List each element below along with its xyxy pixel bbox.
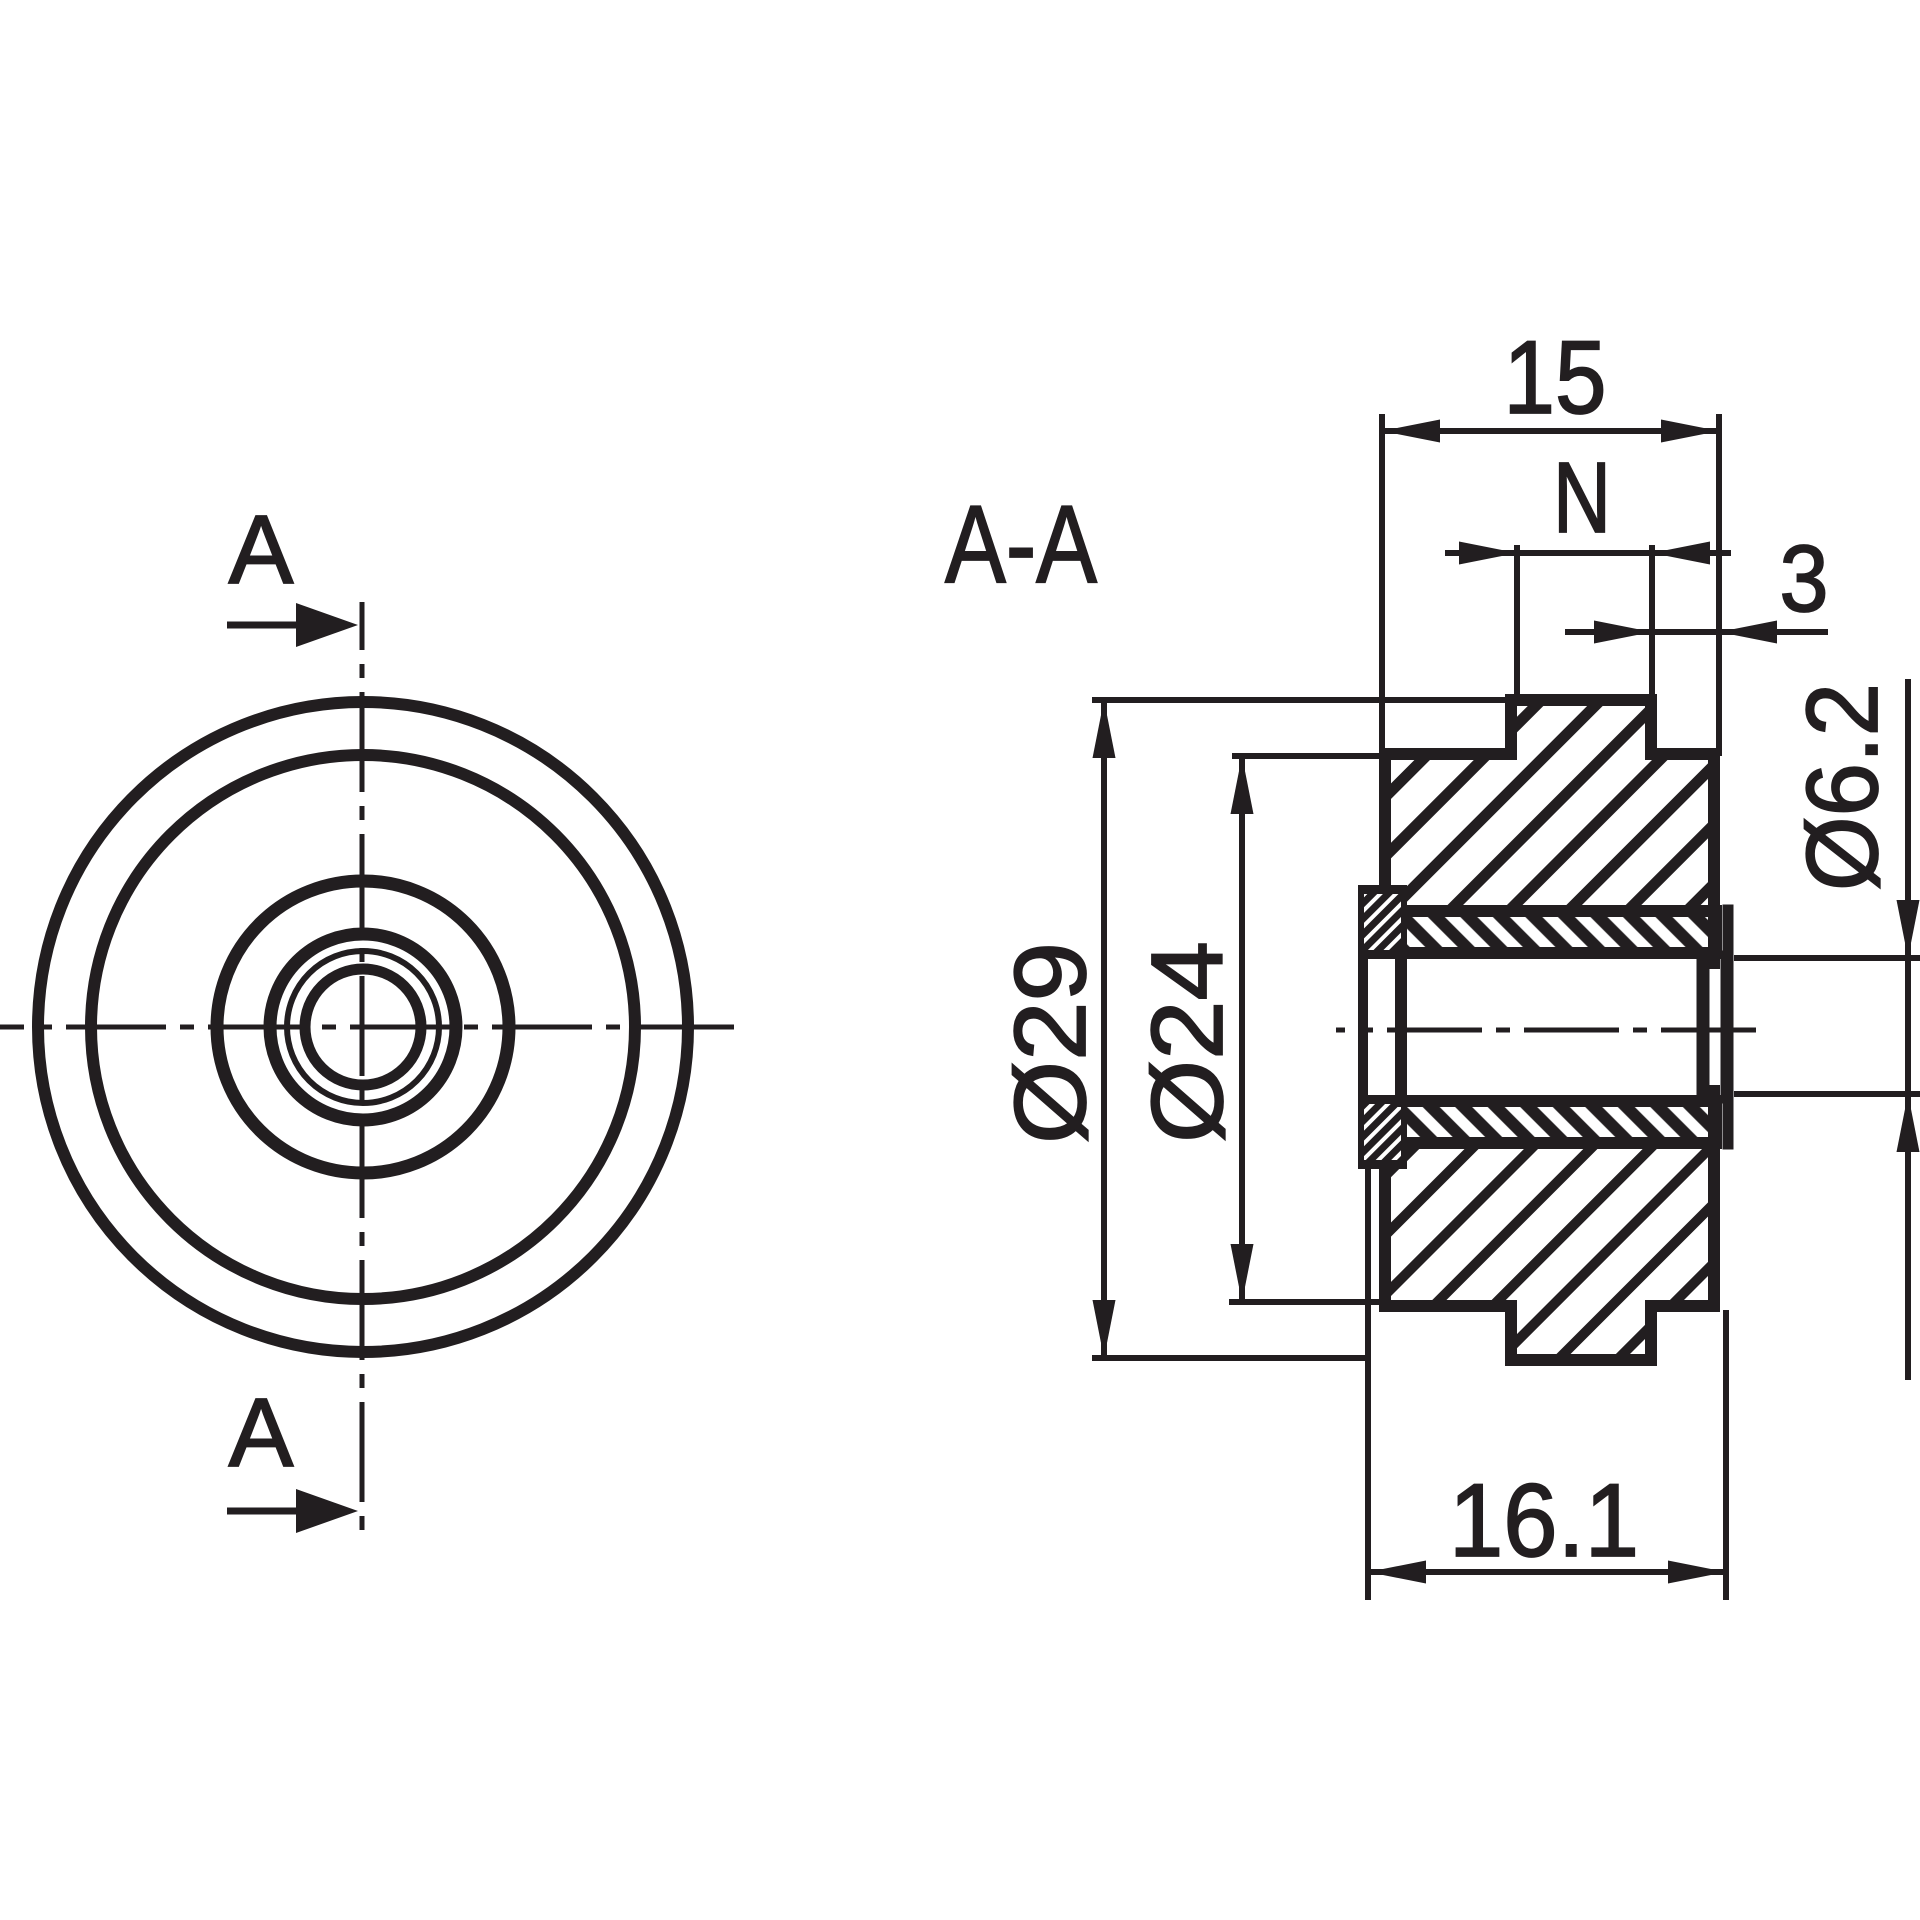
svg-text:A-A: A-A (945, 483, 1098, 606)
svg-text:15: 15 (1504, 320, 1607, 436)
svg-text:A: A (229, 1378, 294, 1487)
svg-text:16.1: 16.1 (1449, 1463, 1639, 1579)
svg-text:A: A (229, 495, 294, 604)
svg-text:Ø6.2: Ø6.2 (1787, 683, 1899, 891)
svg-text:3: 3 (1780, 526, 1829, 632)
svg-text:Ø24: Ø24 (1132, 941, 1244, 1143)
svg-text:Ø29: Ø29 (995, 942, 1107, 1144)
svg-text:N: N (1553, 442, 1611, 554)
